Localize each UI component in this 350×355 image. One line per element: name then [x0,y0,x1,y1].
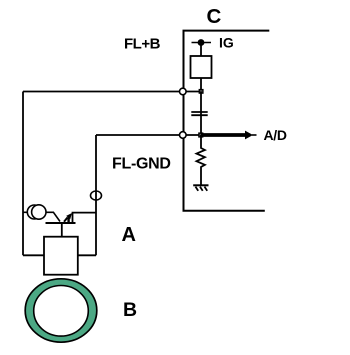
inline connector circle on FL-GND wire [91,191,102,200]
ECU box C (open right side) [184,31,270,211]
chassis ground [193,185,208,191]
wire bottom left to box [23,254,44,256]
junction square node FL+B [199,89,204,94]
wire FL-GND horizontal [96,134,201,136]
wire float branch [23,211,29,213]
wire right vertical FL-GND [95,135,97,255]
capacitor vertical wire [200,92,202,136]
capacitor C plates [191,111,207,113]
IG node dot [198,39,205,46]
sender resistor track [46,222,76,224]
float lever to wiper [46,212,60,221]
svg-text:A/D: A/D [264,127,287,143]
fuse box (pull-up element) [191,56,212,78]
pump box A [44,237,78,275]
svg-text:IG: IG [219,35,234,51]
connector pin circle FL+B [180,88,187,95]
resistor (pull-down) zigzag [197,135,205,185]
junction square node A/D [198,132,203,137]
svg-text:B: B [123,299,137,321]
float symbol (double circle) [27,205,41,219]
wire track right terminal [73,213,97,223]
svg-text:C: C [207,5,222,28]
gasket ring B inner [34,286,89,337]
connector pin circle FL-GND [180,132,187,139]
wire fuse to node FL+B [200,78,202,92]
A/D arrow [201,133,246,137]
IG stub wire [192,42,212,44]
wire FL+B horizontal [23,91,201,93]
wiper arrow [64,218,68,222]
wire left vertical FL+B [22,92,24,256]
svg-text:FL+B: FL+B [124,35,161,52]
svg-text:FL-GND: FL-GND [112,156,171,173]
wire bottom right to box [78,254,96,256]
gasket ring B outer [25,279,97,342]
svg-text:A: A [122,224,136,246]
wire IG dot to fuse [200,43,202,57]
wire center tap to pump box [61,223,63,237]
